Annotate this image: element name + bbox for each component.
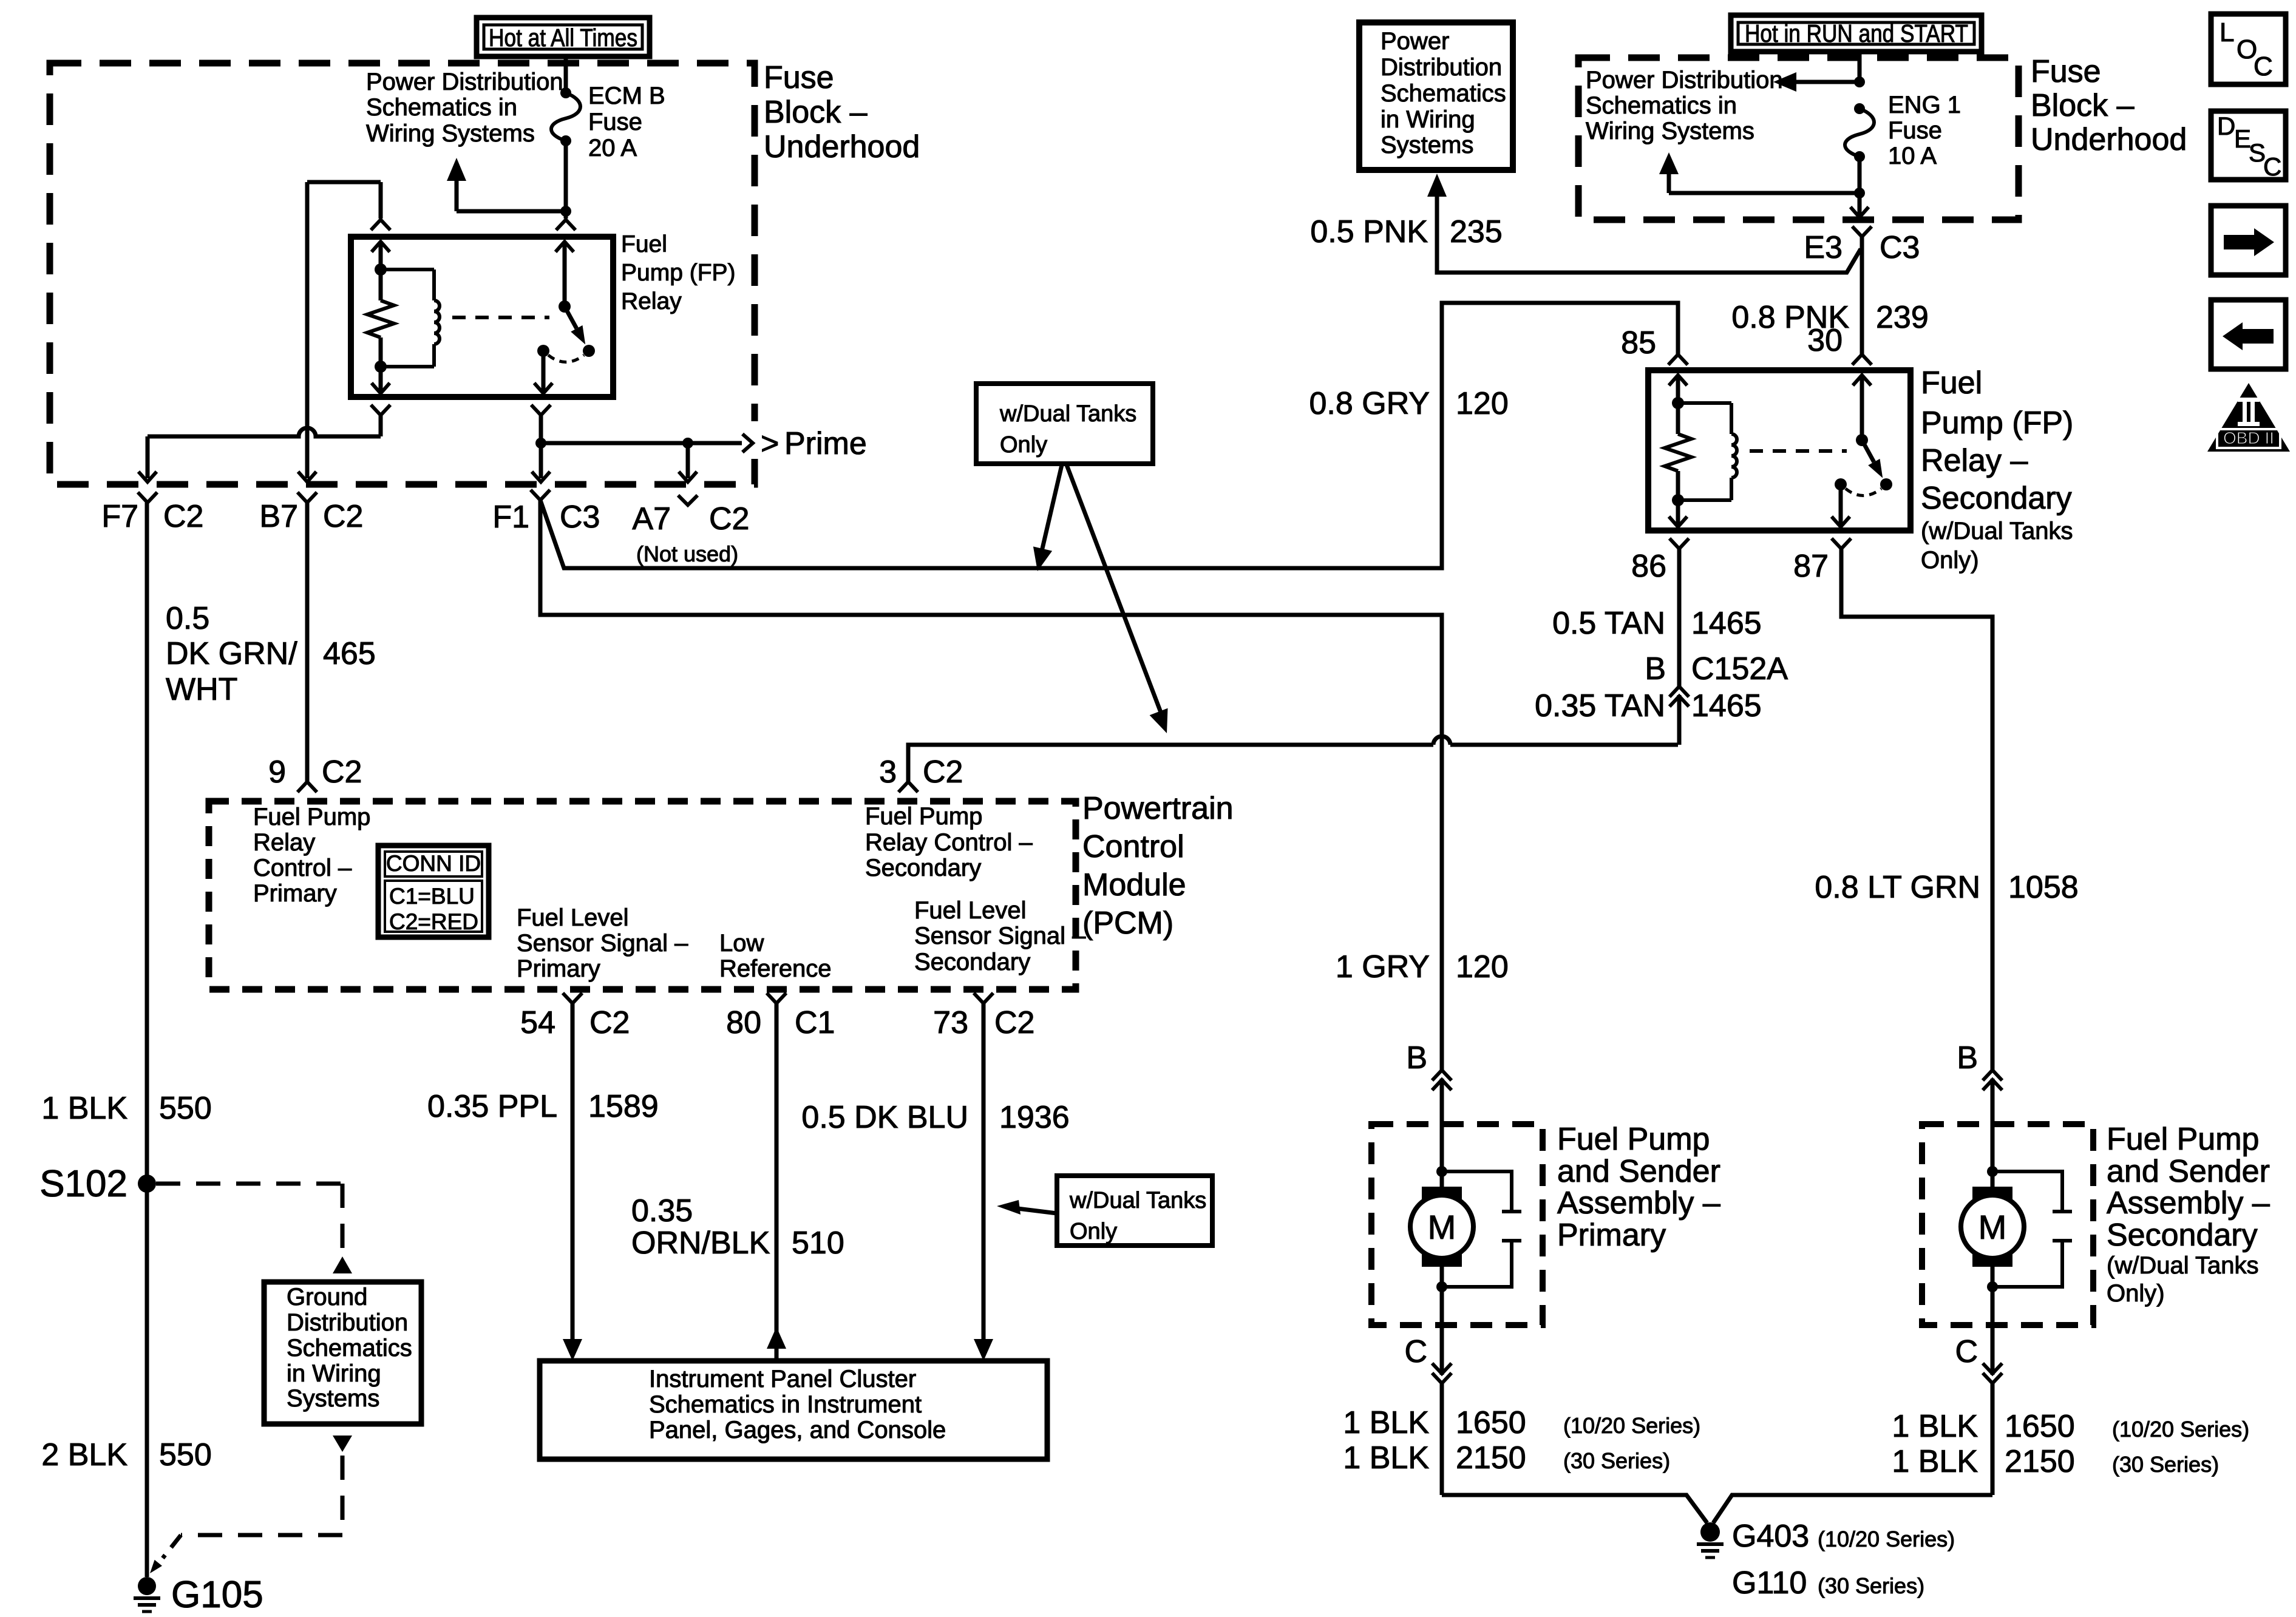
svg-text:Module: Module [1082, 867, 1186, 903]
svg-text:1 BLK: 1 BLK [1343, 1405, 1429, 1440]
svg-text:F1: F1 [492, 500, 529, 535]
svg-text:Fuel: Fuel [1921, 365, 1982, 401]
svg-text:Distribution: Distribution [287, 1309, 408, 1336]
svg-text:>: > [761, 426, 779, 461]
svg-text:10 A: 10 A [1888, 143, 1937, 169]
svg-text:Assembly –: Assembly – [2107, 1185, 2270, 1221]
svg-text:Assembly –: Assembly – [1557, 1185, 1720, 1221]
svg-text:Prime: Prime [784, 426, 867, 461]
svg-text:Block –: Block – [2031, 88, 2135, 123]
svg-text:Fuel Level: Fuel Level [914, 897, 1027, 924]
svg-text:54: 54 [520, 1005, 555, 1040]
svg-text:C2: C2 [589, 1005, 630, 1040]
svg-text:B: B [1406, 1040, 1427, 1076]
svg-text:C152A: C152A [1691, 651, 1788, 686]
svg-text:(PCM): (PCM) [1082, 906, 1173, 941]
svg-text:2150: 2150 [2005, 1444, 2075, 1479]
svg-text:120: 120 [1456, 386, 1509, 421]
svg-text:(w/Dual Tanks: (w/Dual Tanks [2107, 1252, 2258, 1279]
svg-text:Low: Low [719, 930, 764, 957]
svg-text:Relay: Relay [253, 829, 315, 856]
svg-text:C: C [2254, 52, 2273, 81]
svg-text:1465: 1465 [1691, 606, 1762, 641]
svg-text:M: M [1428, 1208, 1456, 1246]
svg-text:Underhood: Underhood [764, 129, 920, 164]
svg-text:C2: C2 [709, 501, 749, 537]
svg-text:Schematics: Schematics [1381, 80, 1506, 107]
svg-text:2150: 2150 [1456, 1440, 1526, 1476]
svg-text:Control: Control [1082, 829, 1184, 864]
svg-text:Systems: Systems [1381, 132, 1473, 158]
svg-text:Reference: Reference [719, 955, 832, 982]
svg-text:Sensor Signal –: Sensor Signal – [914, 923, 1086, 949]
svg-text:in Wiring: in Wiring [287, 1360, 381, 1387]
svg-text:C: C [2263, 152, 2281, 181]
svg-text:Power Distribution: Power Distribution [1586, 67, 1783, 93]
svg-text:in Wiring: in Wiring [1381, 106, 1475, 133]
svg-text:Primary: Primary [1557, 1218, 1666, 1253]
svg-text:Fuel Pump: Fuel Pump [865, 803, 982, 830]
svg-text:(30 Series): (30 Series) [1818, 1573, 1924, 1598]
svg-text:Fuel Pump: Fuel Pump [253, 804, 370, 830]
svg-text:A7: A7 [632, 501, 671, 537]
svg-text:239: 239 [1876, 300, 1929, 335]
svg-text:235: 235 [1450, 214, 1503, 249]
svg-text:Primary: Primary [253, 880, 337, 907]
svg-text:Only: Only [1000, 432, 1047, 458]
svg-text:1 GRY: 1 GRY [1336, 949, 1430, 985]
svg-text:550: 550 [159, 1437, 212, 1473]
svg-text:S102: S102 [39, 1163, 127, 1205]
svg-text:1650: 1650 [1456, 1405, 1526, 1440]
svg-text:Relay: Relay [621, 288, 682, 314]
svg-text:F7: F7 [101, 499, 138, 534]
svg-text:WHT: WHT [166, 672, 237, 707]
svg-text:ORN/BLK: ORN/BLK [631, 1225, 770, 1261]
svg-text:550: 550 [159, 1091, 212, 1126]
svg-text:1650: 1650 [2005, 1409, 2075, 1444]
svg-text:1058: 1058 [2008, 870, 2079, 905]
svg-text:Schematics: Schematics [287, 1335, 412, 1361]
svg-text:D: D [2217, 112, 2235, 140]
svg-text:B: B [1957, 1040, 1978, 1076]
svg-text:C: C [1955, 1334, 1978, 1369]
svg-text:1 BLK: 1 BLK [1892, 1444, 1978, 1479]
svg-text:ENG 1: ENG 1 [1888, 92, 1961, 118]
svg-text:Schematics in: Schematics in [366, 94, 517, 121]
svg-text:C3: C3 [1880, 230, 1920, 265]
svg-text:Fuse: Fuse [588, 109, 642, 135]
svg-text:(30 Series): (30 Series) [2112, 1452, 2219, 1477]
svg-text:Fuse: Fuse [1888, 117, 1942, 144]
svg-text:0.8 GRY: 0.8 GRY [1309, 386, 1430, 421]
svg-text:B: B [1645, 651, 1666, 686]
svg-text:CONN ID: CONN ID [386, 851, 481, 876]
svg-text:(Not used): (Not used) [636, 541, 738, 566]
svg-text:C3: C3 [560, 500, 600, 535]
svg-text:Panel, Gages, and Console: Panel, Gages, and Console [649, 1417, 946, 1443]
svg-text:Hot at All Times: Hot at All Times [489, 24, 637, 52]
svg-text:B7: B7 [259, 499, 298, 534]
svg-text:1 BLK: 1 BLK [1892, 1409, 1978, 1444]
svg-text:Ground: Ground [287, 1284, 367, 1310]
svg-text:73: 73 [933, 1005, 968, 1040]
svg-text:Wiring Systems: Wiring Systems [366, 120, 535, 147]
svg-text:Secondary: Secondary [865, 855, 981, 881]
svg-text:0.8 LT GRN: 0.8 LT GRN [1815, 870, 1980, 905]
svg-text:Systems: Systems [287, 1385, 379, 1412]
svg-text:G105: G105 [171, 1574, 263, 1616]
svg-text:20 A: 20 A [588, 135, 637, 161]
svg-text:OBD II: OBD II [2223, 429, 2274, 447]
svg-text:30: 30 [1807, 323, 1843, 358]
svg-text:Secondary: Secondary [914, 949, 1030, 975]
svg-text:L: L [2220, 18, 2234, 47]
svg-text:C2: C2 [323, 499, 363, 534]
svg-text:0.35 PPL: 0.35 PPL [427, 1089, 557, 1124]
svg-text:0.5 PNK: 0.5 PNK [1310, 214, 1428, 249]
svg-text:(10/20 Series): (10/20 Series) [2112, 1417, 2249, 1442]
svg-text:Secondary: Secondary [2107, 1218, 2258, 1253]
svg-text:C: C [1404, 1334, 1427, 1369]
svg-text:Sensor Signal –: Sensor Signal – [517, 930, 688, 957]
svg-text:9: 9 [268, 754, 286, 790]
svg-text:87: 87 [1793, 549, 1829, 584]
svg-text:(10/20 Series): (10/20 Series) [1563, 1413, 1700, 1438]
svg-text:Primary: Primary [517, 955, 600, 982]
svg-text:1465: 1465 [1691, 688, 1762, 724]
svg-text:and Sender: and Sender [1557, 1154, 1720, 1189]
svg-text:DK GRN/: DK GRN/ [166, 636, 297, 671]
svg-text:2 BLK: 2 BLK [41, 1437, 127, 1473]
svg-text:Fuse: Fuse [764, 60, 834, 95]
svg-text:Only): Only) [2107, 1280, 2165, 1307]
svg-text:(w/Dual Tanks: (w/Dual Tanks [1921, 518, 2073, 544]
svg-text:Schematics in Instrument: Schematics in Instrument [649, 1391, 922, 1418]
svg-text:1 BLK: 1 BLK [41, 1091, 127, 1126]
svg-text:1589: 1589 [588, 1089, 659, 1124]
svg-text:465: 465 [323, 636, 376, 671]
svg-text:Fuel: Fuel [621, 231, 667, 257]
svg-text:120: 120 [1456, 949, 1509, 985]
svg-text:0.5 TAN: 0.5 TAN [1552, 606, 1665, 641]
svg-text:3: 3 [879, 754, 897, 790]
svg-text:Fuel Pump: Fuel Pump [2107, 1122, 2259, 1157]
svg-text:Schematics in: Schematics in [1586, 92, 1737, 119]
svg-text:Control –: Control – [253, 855, 352, 881]
svg-text:w/Dual Tanks: w/Dual Tanks [999, 401, 1136, 427]
svg-text:G110: G110 [1732, 1565, 1807, 1601]
svg-text:Instrument Panel Cluster: Instrument Panel Cluster [649, 1366, 916, 1392]
svg-text:Power Distribution: Power Distribution [366, 69, 563, 95]
svg-text:and Sender: and Sender [2107, 1154, 2270, 1189]
svg-text:ECM B: ECM B [588, 83, 665, 109]
svg-text:Distribution: Distribution [1381, 54, 1502, 81]
svg-text:Secondary: Secondary [1921, 481, 2072, 516]
svg-text:M: M [1978, 1208, 2007, 1246]
svg-text:Only: Only [1070, 1219, 1117, 1244]
svg-text:86: 86 [1631, 549, 1666, 584]
svg-text:(10/20 Series): (10/20 Series) [1818, 1527, 1955, 1551]
svg-text:85: 85 [1621, 325, 1656, 361]
svg-text:C2: C2 [163, 499, 203, 534]
svg-text:C2: C2 [994, 1005, 1034, 1040]
svg-text:0.5: 0.5 [166, 601, 209, 636]
svg-text:0.35 TAN: 0.35 TAN [1535, 688, 1665, 724]
svg-text:Fuel Pump: Fuel Pump [1557, 1122, 1710, 1157]
svg-text:Relay –: Relay – [1921, 443, 2028, 478]
svg-text:Power: Power [1381, 28, 1449, 55]
svg-text:w/Dual Tanks: w/Dual Tanks [1069, 1188, 1206, 1213]
svg-text:Pump (FP): Pump (FP) [621, 260, 736, 286]
svg-text:G403: G403 [1732, 1519, 1809, 1554]
svg-text:Hot in RUN and START: Hot in RUN and START [1745, 19, 1968, 47]
svg-text:Only): Only) [1921, 547, 1979, 574]
svg-text:Block –: Block – [764, 95, 868, 130]
svg-text:1936: 1936 [999, 1100, 1070, 1135]
svg-text:0.35: 0.35 [631, 1193, 693, 1229]
svg-text:Underhood: Underhood [2031, 122, 2187, 157]
svg-text:Relay Control –: Relay Control – [865, 829, 1033, 856]
svg-text:E3: E3 [1804, 230, 1843, 265]
svg-text:C2: C2 [322, 754, 362, 790]
svg-text:Powertrain: Powertrain [1082, 791, 1234, 826]
svg-text:510: 510 [792, 1225, 844, 1261]
svg-text:0.5 DK BLU: 0.5 DK BLU [801, 1100, 968, 1135]
svg-text:C2: C2 [923, 754, 963, 790]
svg-text:C2=RED: C2=RED [389, 909, 478, 934]
svg-text:80: 80 [726, 1005, 761, 1040]
svg-text:Fuse: Fuse [2031, 54, 2101, 89]
svg-text:C1: C1 [795, 1005, 835, 1040]
svg-text:1 BLK: 1 BLK [1343, 1440, 1429, 1476]
svg-text:Wiring Systems: Wiring Systems [1586, 118, 1754, 144]
svg-text:C1=BLU: C1=BLU [389, 884, 475, 909]
svg-text:Pump (FP): Pump (FP) [1921, 405, 2073, 441]
svg-text:(30 Series): (30 Series) [1563, 1448, 1670, 1473]
svg-text:Fuel Level: Fuel Level [517, 904, 629, 931]
